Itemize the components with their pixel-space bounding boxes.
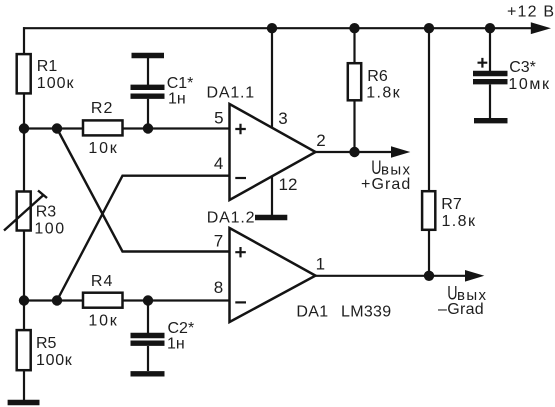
common bar above C1 [132, 53, 165, 58]
svg-text:10к: 10к [88, 140, 118, 157]
svg-text:1.8к: 1.8к [442, 213, 477, 230]
svg-text:4: 4 [214, 154, 223, 173]
svg-text:+Grad: +Grad [361, 176, 411, 193]
capacitor C2 plates [131, 333, 165, 338]
svg-text:DA1: DA1 [296, 304, 328, 321]
svg-text:+12 В: +12 В [507, 4, 555, 21]
wire pin12 to ground [271, 176, 273, 216]
wire R3 to row2 [23, 231, 25, 331]
capacitor C1 plates [131, 85, 165, 90]
svg-text:R5: R5 [36, 335, 57, 352]
wire node to C2 [147, 301, 149, 334]
wire C2 to bar [147, 346, 149, 371]
svg-text:10к: 10к [88, 313, 118, 330]
svg-text:1н: 1н [168, 91, 186, 108]
capacitor C3 plates [473, 71, 508, 76]
junction dot C2 tap [143, 295, 153, 305]
wire rail to R7 [428, 28, 430, 192]
wire crossover top to pin7 [57, 129, 230, 252]
C3 polarity plus [478, 58, 488, 68]
junction dot crossover top [52, 123, 62, 133]
junction dot crossover bottom [52, 295, 62, 305]
svg-text:C1*: C1* [167, 75, 194, 92]
svg-text:R6: R6 [367, 68, 388, 85]
wire R1 to R3 [23, 93, 25, 191]
junction dot R6 rail [349, 23, 359, 33]
resistor R6 [348, 63, 361, 100]
wire R2 to pin5 [123, 127, 230, 129]
wire R5 to ground [23, 370, 25, 400]
junction dot left rail row2 [19, 295, 29, 305]
resistor R2 [83, 120, 123, 135]
resistor R7 [422, 191, 435, 230]
resistor R3 trimmer body [17, 192, 31, 231]
svg-text:7: 7 [214, 232, 223, 251]
svg-text:R2: R2 [91, 100, 113, 117]
label U output1 [371, 157, 381, 179]
junction dot left rail row1 [19, 123, 29, 133]
svg-text:R4: R4 [91, 273, 113, 290]
ground R5 [8, 400, 40, 405]
svg-text:8: 8 [214, 278, 223, 297]
junction dot output2 R7 [424, 271, 434, 281]
svg-text:C3*: C3* [509, 59, 536, 76]
wire bar to C1 [147, 58, 149, 85]
svg-text:R7: R7 [441, 196, 462, 213]
wire DA1.2 output [316, 275, 469, 277]
arrow output1 [391, 146, 410, 158]
DA1.1 minus marker [235, 177, 246, 179]
svg-text:R1: R1 [37, 58, 58, 75]
common bar below C2 [131, 371, 165, 376]
label U output2 [447, 282, 457, 304]
op-amp DA1.2 body [230, 228, 316, 322]
svg-text:5: 5 [214, 109, 223, 128]
DA1.2 minus marker [235, 301, 246, 303]
svg-text:R3: R3 [36, 204, 57, 221]
junction dot pin3 rail [267, 23, 277, 33]
wire rail to C3 [489, 28, 491, 71]
resistor R4 [83, 293, 123, 308]
wire R4 to pin8 [123, 299, 230, 301]
resistor R1 [17, 54, 31, 93]
wire left rail top [23, 27, 25, 55]
svg-text:10мк: 10мк [508, 76, 550, 93]
svg-text:1н: 1н [167, 336, 185, 353]
wire row1 to R2 [24, 127, 83, 129]
wire C1 to node [147, 99, 149, 129]
resistor R5 [17, 330, 31, 370]
wire +12V top rail [23, 27, 536, 29]
junction dot output1 R6 [349, 147, 359, 157]
svg-text:3: 3 [278, 109, 287, 128]
wire pin3 V+ [271, 28, 273, 128]
svg-text:100: 100 [34, 221, 65, 238]
DA1.1 plus marker [235, 124, 246, 135]
wire rail to R6 [353, 28, 355, 64]
svg-text:100к: 100к [37, 75, 75, 92]
ground pin12 [255, 215, 287, 220]
+12V arrow terminal [531, 22, 551, 34]
junction dot R7 rail [424, 23, 434, 33]
junction dot C1 tap [143, 123, 153, 133]
wire crossover bottom to pin4 [57, 176, 230, 301]
svg-text:1.8к: 1.8к [366, 85, 401, 102]
wire C3 to ground [489, 85, 491, 119]
svg-text:12: 12 [279, 175, 298, 194]
arrow output2 [465, 270, 484, 282]
svg-text:1: 1 [316, 255, 325, 274]
DA1.2 plus marker [235, 247, 246, 257]
wire R6 to output1 [353, 100, 355, 152]
svg-text:LM339: LM339 [341, 304, 391, 321]
svg-text:DA1.2: DA1.2 [207, 210, 255, 227]
svg-text:C2*: C2* [168, 320, 195, 337]
R3 trimmer diagonal [4, 195, 44, 231]
svg-text:2: 2 [316, 131, 325, 150]
svg-text:–Grad: –Grad [438, 301, 484, 318]
svg-text:DA1.1: DA1.1 [207, 85, 255, 102]
wire DA1.1 output [316, 151, 395, 153]
R3 trimmer crossbar [38, 191, 47, 199]
junction dot C3 rail [485, 23, 495, 33]
svg-text:100к: 100к [36, 352, 73, 369]
wire row2 to R4 [24, 299, 83, 301]
ground C3 [474, 118, 508, 123]
wire R7 to output2 [428, 230, 430, 276]
op-amp DA1.1 body [230, 104, 316, 200]
